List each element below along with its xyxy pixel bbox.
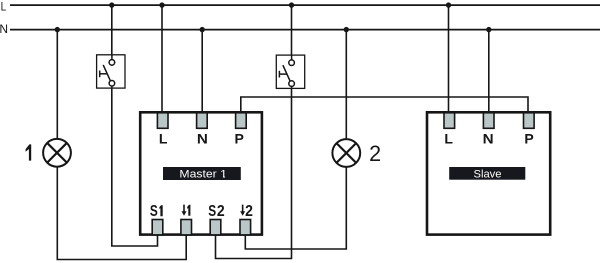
svg-text:2: 2 [245,203,253,220]
wire: N rail to Slave N terminal [488,30,490,114]
junction dot N/lamp2 [344,27,349,32]
Master terminal S1 [152,220,163,235]
Slave name plate [449,167,525,180]
svg-text:L: L [444,130,453,146]
wire: switch 2 to S2 terminal [216,88,292,258]
svg-text:P: P [524,130,533,146]
junction dot N/lamp1 [55,27,60,32]
lamp 1 [43,139,71,167]
Master terminal N [197,113,208,129]
wire: L rail to Slave L terminal [448,5,450,114]
Slave terminal P [524,113,535,129]
Master terminal L [157,113,168,129]
wire: L rail to Master L terminal [161,5,163,114]
svg-text:N: N [483,130,494,146]
wire: N rail to lamp 2 [345,30,347,140]
svg-text:2: 2 [369,141,381,166]
junction dot N/Slave-N [486,27,491,32]
Slave terminal L [444,113,455,129]
wire: switch 1 to S1 terminal [112,88,158,246]
wire: L rail to switch 1 [111,5,113,55]
Master terminal arrow-2 [240,220,251,235]
Master 1 device box [140,112,262,234]
label Master terminal arrow-1 [182,205,191,216]
svg-text:N: N [0,22,8,36]
svg-text:N: N [197,130,208,146]
Master 1 name plate [163,167,241,180]
label lamp 1 [26,144,32,160]
wire: N rail to Master N terminal [201,30,203,114]
junction dot L/Slave-L [446,2,451,7]
Master terminal S2 [210,220,221,235]
push-button switch 1 [97,55,125,88]
svg-text:Master 1: Master 1 [179,168,227,180]
junction dot L/switch2 [289,2,294,7]
wire: lamp 2 to arrow-2 terminal [245,167,346,249]
Slave device box [427,112,550,234]
svg-text:L: L [159,130,168,146]
wire: N rail to lamp 1 [56,30,58,140]
svg-text:2: 2 [217,203,225,220]
svg-text:L: L [1,0,7,13]
svg-text:S: S [208,203,216,220]
lamp 2 [332,139,360,167]
svg-text:S: S [150,203,158,220]
junction dot L/switch1 [109,2,114,7]
svg-text:P: P [235,130,244,146]
Master terminal arrow-1 [181,220,192,235]
Master terminal P [236,113,247,129]
wire: Master P to Slave P link [241,97,528,114]
svg-text:Slave: Slave [474,168,502,180]
junction dot N/Master-N [200,27,205,32]
wire: L rail to switch 2 [291,5,293,55]
label Master terminal arrow-2 [240,203,253,220]
Slave terminal N [483,113,494,129]
wire: L rail [10,4,600,6]
wire: N rail [10,29,600,31]
junction dot L/Master-L [159,2,164,7]
wire: lamp 1 to arrow-1 terminal [57,167,186,260]
push-button switch 2 [276,55,304,88]
